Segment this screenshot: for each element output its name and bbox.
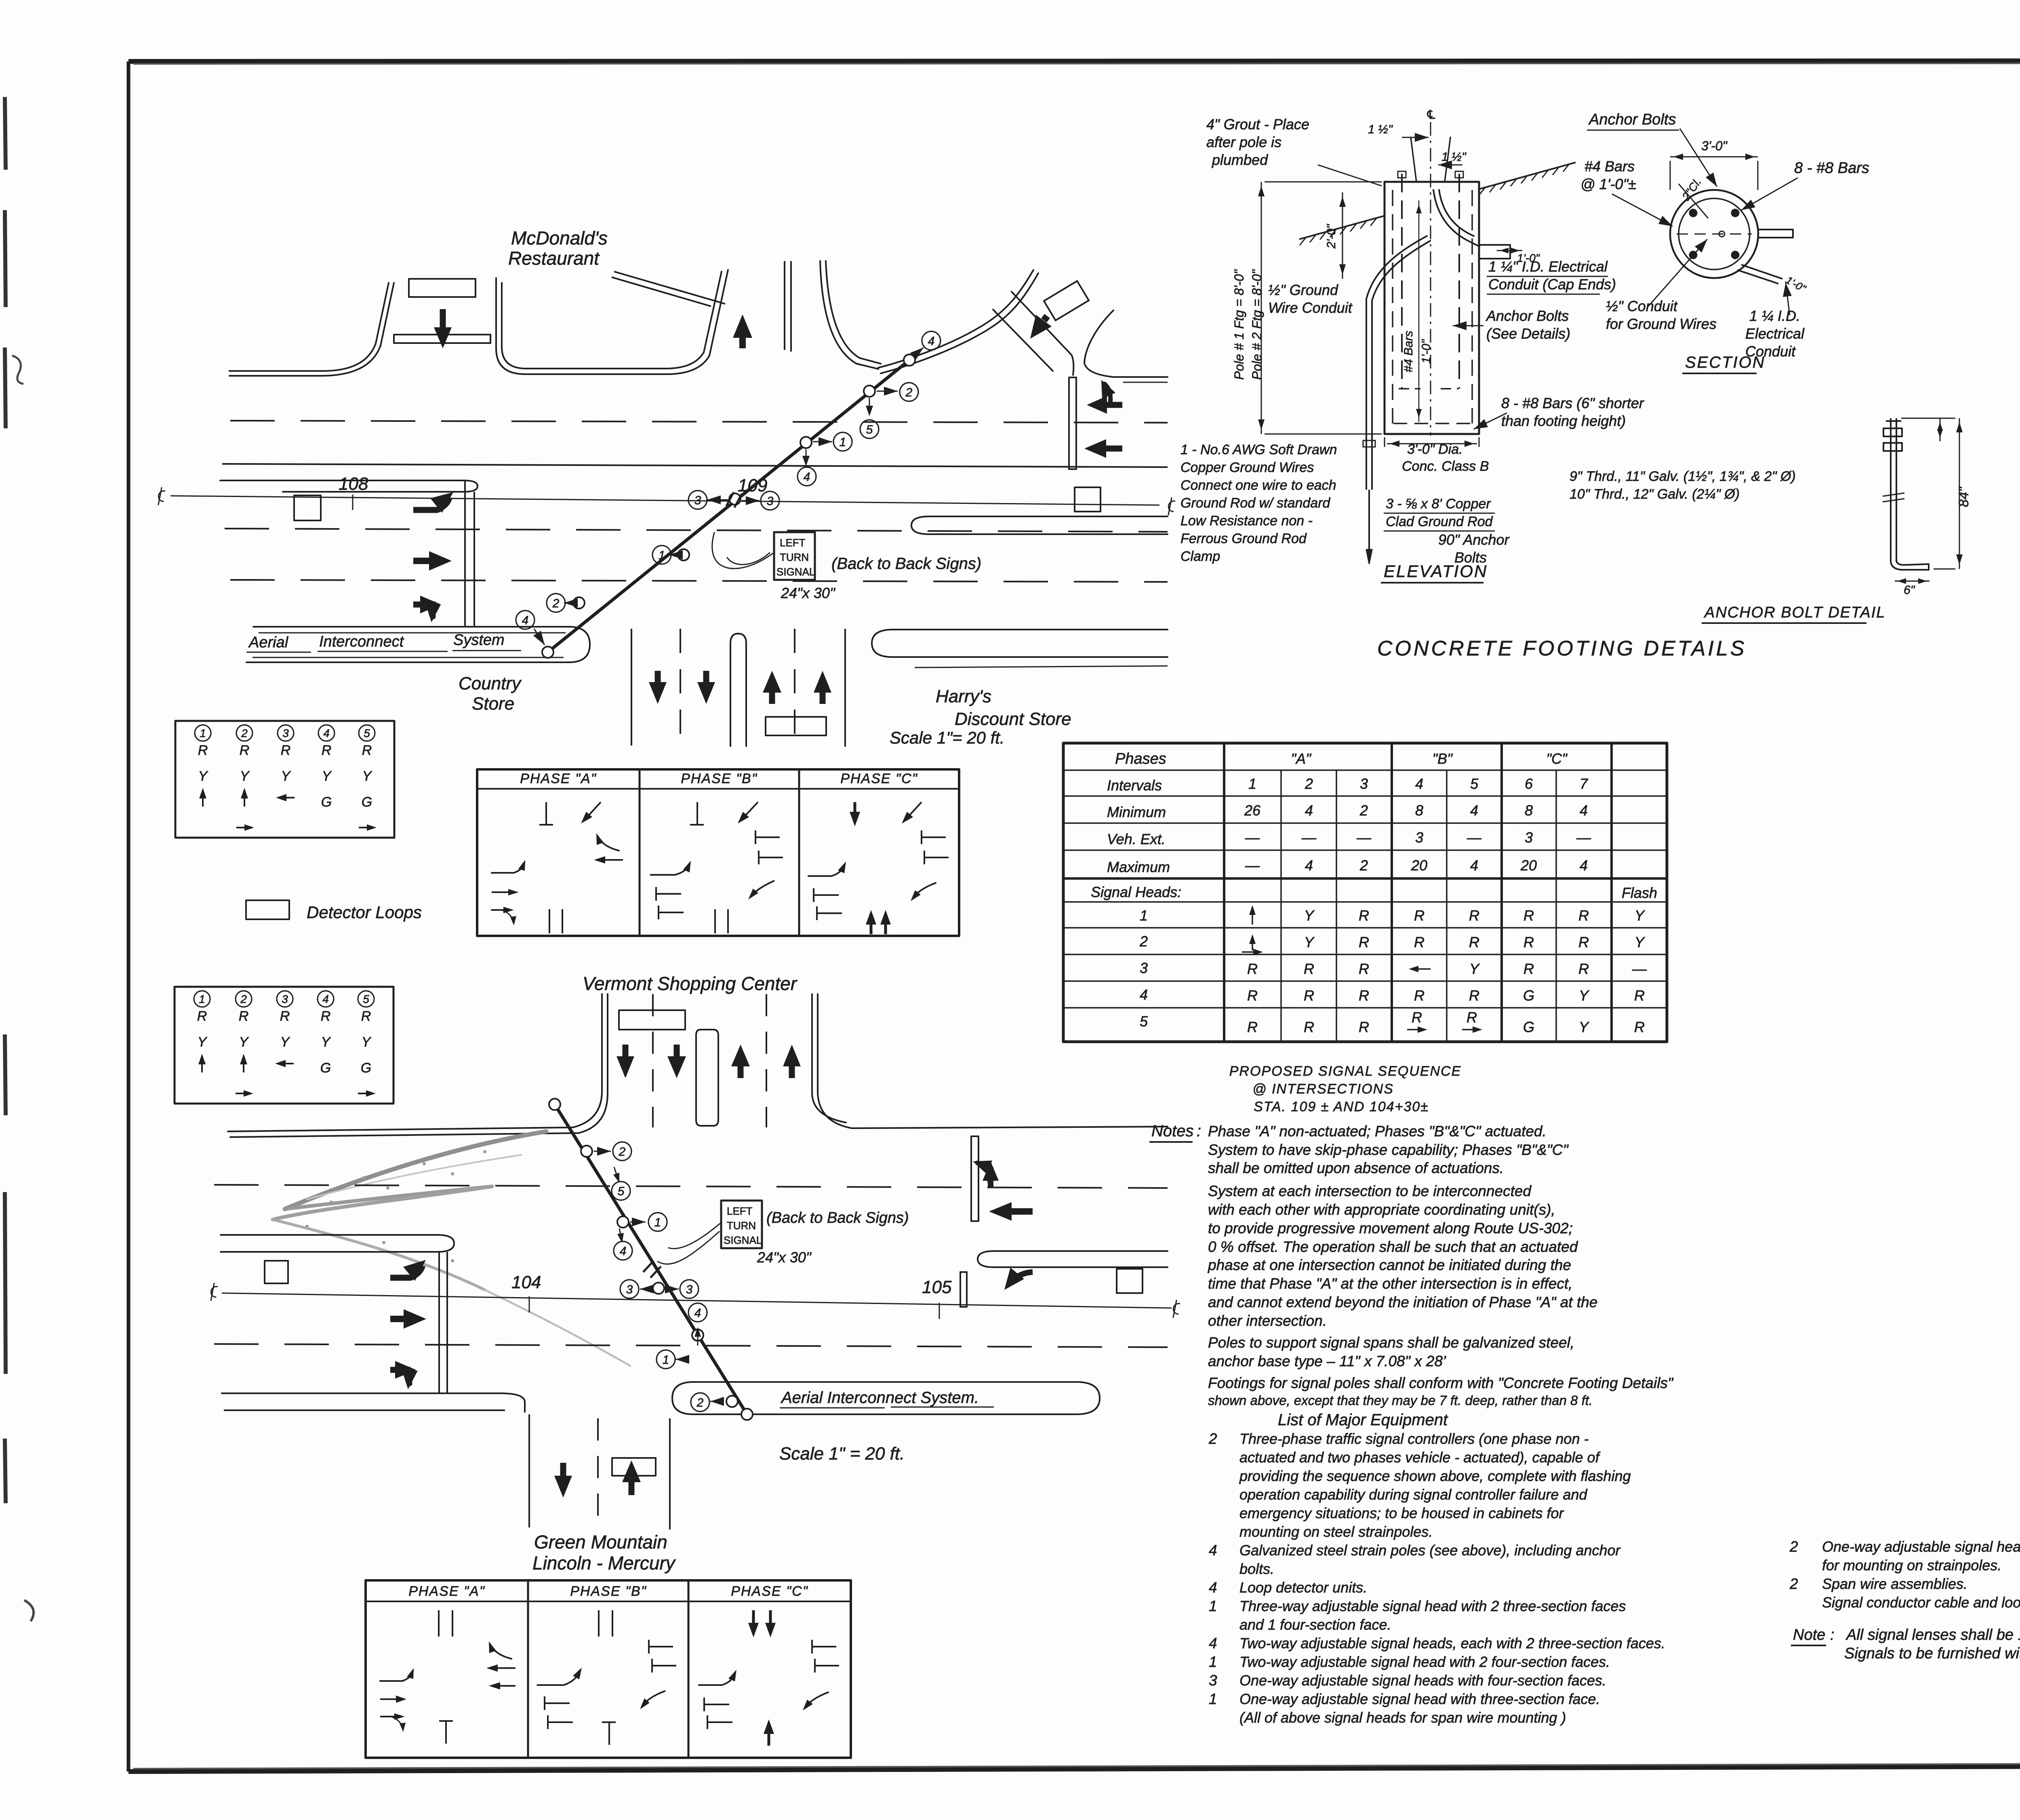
svg-text:Conduit (Cap Ends): Conduit (Cap Ends): [1488, 276, 1616, 293]
NB up arrow: [739, 338, 746, 348]
left turn signal sign 109: [774, 532, 815, 580]
svg-text:8 - #8 Bars: 8 - #8 Bars: [1794, 160, 1869, 177]
rebar cage dashed: [1392, 190, 1393, 423]
pole grout funnel: [1411, 137, 1416, 182]
centerline axis: [1430, 122, 1431, 436]
svg-text:2: 2: [552, 597, 560, 610]
svg-text:R: R: [198, 743, 208, 758]
svg-text:Phases: Phases: [1115, 750, 1166, 767]
svg-text:R: R: [1523, 961, 1534, 977]
east driveway curbs: [784, 261, 785, 350]
svg-text:4" Grout - Place: 4" Grout - Place: [1206, 116, 1309, 133]
svg-text:Notes: Notes: [1151, 1122, 1194, 1140]
svg-text:4: 4: [1305, 802, 1313, 819]
svg-text:R: R: [1469, 907, 1479, 924]
ground rod elevation: [1366, 436, 1367, 490]
svg-text:Anchor Bolts: Anchor Bolts: [1588, 111, 1676, 128]
svg-text:ANCHOR BOLT DETAIL: ANCHOR BOLT DETAIL: [1704, 604, 1885, 621]
McDonalds lot outline: [496, 270, 728, 374]
span nodes/signals 109: [542, 647, 553, 658]
NE left arrow 2: [1106, 446, 1122, 452]
svg-text:operation capability during: operation capability during signal contr…: [1239, 1486, 1587, 1503]
svg-text:for Ground Wires: for Ground Wires: [1606, 316, 1717, 332]
svg-text:1: 1: [1209, 1598, 1217, 1614]
svg-text:Wire Conduit: Wire Conduit: [1268, 299, 1353, 316]
svg-text:R: R: [1304, 987, 1314, 1004]
svg-text:and 1 four-section face.: and 1 four-section face.: [1239, 1616, 1391, 1633]
svg-text:Conc. Class B: Conc. Class B: [1402, 459, 1489, 474]
svg-text:G: G: [320, 1060, 331, 1076]
svg-text:Y: Y: [362, 769, 372, 784]
phase diagram box set 1: [477, 769, 959, 936]
svg-text:R: R: [1359, 987, 1369, 1004]
svg-text:bolts.: bolts.: [1239, 1561, 1274, 1577]
signal heads legend box: [175, 721, 394, 838]
svg-text:#4 Bars: #4 Bars: [1402, 331, 1415, 372]
svg-text:108: 108: [339, 474, 368, 494]
svg-text:R: R: [1469, 987, 1479, 1004]
svg-text:—: —: [1356, 829, 1372, 846]
conduit elbow right: [1433, 190, 1479, 246]
left turn signal sign 104: [721, 1201, 762, 1248]
south leg 104 (Green Mountain): [528, 1414, 530, 1527]
svg-text:4: 4: [522, 614, 529, 627]
svg-text:—: —: [1632, 961, 1647, 977]
NE corner curb sweep: [878, 270, 1033, 368]
svg-text:84": 84": [1956, 486, 1972, 507]
svg-text:3: 3: [694, 494, 701, 507]
svg-text:Y: Y: [198, 1034, 208, 1050]
svg-text:Three-way adjustable signal: Three-way adjustable signal head with 2 …: [1239, 1598, 1626, 1614]
svg-text:Clad Ground Rod: Clad Ground Rod: [1386, 514, 1493, 529]
svg-text:PHASE "C": PHASE "C": [840, 771, 917, 786]
svg-text:Anchor Bolts: Anchor Bolts: [1486, 308, 1569, 324]
svg-text:PHASE "B": PHASE "B": [681, 771, 757, 786]
svg-text:Y: Y: [1304, 907, 1315, 924]
svg-text:plumbed: plumbed: [1212, 152, 1268, 168]
svg-text:G: G: [1523, 1019, 1534, 1035]
svg-text:Ground Rod w/ standard: Ground Rod w/ standard: [1180, 495, 1331, 511]
svg-text:½" Ground: ½" Ground: [1268, 282, 1338, 298]
svg-text:2: 2: [619, 1145, 626, 1159]
svg-text:Y: Y: [1579, 1019, 1590, 1035]
centerline: [170, 496, 1159, 505]
svg-text:1 ½": 1 ½": [1441, 150, 1467, 164]
svg-text:CONCRETE FOOTING DETAILS: CONCRETE FOOTING DETAILS: [1377, 637, 1746, 660]
interior 1-0 dim: [1418, 200, 1420, 422]
svg-text:4: 4: [620, 1245, 627, 1258]
throat island bar: [394, 335, 490, 343]
main road lines 104: [214, 1185, 1168, 1188]
svg-text:Copper Ground Wires: Copper Ground Wires: [1180, 460, 1314, 475]
svg-text:"A": "A": [1291, 750, 1312, 767]
svg-text:LEFT: LEFT: [727, 1205, 753, 1217]
svg-text:Low Resistance non -: Low Resistance non -: [1180, 513, 1313, 529]
span wire 109: [548, 360, 909, 652]
svg-text:PHASE "C": PHASE "C": [731, 1584, 808, 1599]
svg-text:1: 1: [1209, 1691, 1217, 1707]
svg-text:with each other with appropr: with each other with appropriate coordin…: [1208, 1201, 1555, 1218]
svg-text:PHASE "B": PHASE "B": [570, 1584, 647, 1599]
svg-text:G: G: [362, 794, 372, 810]
svg-text:R: R: [1304, 1019, 1314, 1035]
svg-text:Electrical: Electrical: [1745, 325, 1805, 342]
svg-text:and cannot extend beyond th: and cannot extend beyond the initiation …: [1208, 1294, 1597, 1310]
svg-text:R: R: [239, 1009, 249, 1024]
svg-text:other intersection.: other intersection.: [1208, 1312, 1327, 1329]
svg-text:1: 1: [1209, 1654, 1217, 1670]
svg-text:4: 4: [323, 727, 330, 739]
svg-text:R: R: [1578, 907, 1589, 924]
svg-text:@ 1'-0"±: @ 1'-0"±: [1580, 176, 1636, 192]
svg-text:Green Mountain: Green Mountain: [534, 1531, 667, 1552]
svg-text:"B": "B": [1432, 750, 1453, 767]
svg-text:Signal Heads:: Signal Heads:: [1091, 884, 1181, 900]
svg-text:Y: Y: [1635, 907, 1645, 924]
svg-text:4: 4: [1209, 1542, 1217, 1559]
svg-text:Y: Y: [1635, 934, 1645, 950]
svg-text:2: 2: [240, 993, 247, 1005]
svg-text:9" Thrd., 11" Galv. (1½", 1¾",: 9" Thrd., 11" Galv. (1½", 1¾", & 2" Ø): [1570, 469, 1796, 484]
existing cable squiggle: [285, 1131, 546, 1209]
svg-text:Y: Y: [321, 1034, 331, 1050]
svg-text:3: 3: [282, 993, 288, 1005]
svg-text:R: R: [1414, 907, 1425, 924]
svg-text:R: R: [1359, 1019, 1369, 1035]
svg-text:2: 2: [1359, 857, 1368, 874]
grout leader: [1318, 165, 1382, 186]
svg-text:1 ¼" I.D. Electrical: 1 ¼" I.D. Electrical: [1488, 258, 1608, 275]
svg-text:PHASE "A": PHASE "A": [520, 771, 597, 786]
section dim 3-0: [1670, 156, 1758, 158]
svg-text:1: 1: [1140, 907, 1148, 924]
svg-text:4: 4: [1580, 857, 1588, 874]
svg-text:One-way adjustable signal h: One-way adjustable signal head with thre…: [1239, 1691, 1600, 1707]
lane lines lower: [225, 529, 1168, 532]
svg-text:Galvanized steel strain pol: Galvanized steel strain poles (see above…: [1239, 1542, 1621, 1559]
svg-text:(Back to Back Signs): (Back to Back Signs): [831, 555, 981, 573]
svg-text:shown above, except that they: shown above, except that they may be 7 f…: [1208, 1393, 1593, 1408]
svg-text:3: 3: [626, 1283, 633, 1296]
svg-text:Lincoln - Mercury: Lincoln - Mercury: [532, 1552, 676, 1574]
svg-text:105: 105: [922, 1277, 952, 1297]
svg-text:4: 4: [1209, 1635, 1217, 1651]
svg-text:R: R: [1359, 961, 1369, 977]
svg-text:6: 6: [1525, 775, 1533, 792]
south leg road: [631, 629, 632, 746]
svg-text:R: R: [240, 743, 250, 758]
west approach arrows 104: [390, 1266, 423, 1278]
svg-text:R: R: [1469, 934, 1479, 950]
svg-text:—: —: [1576, 829, 1591, 846]
svg-text:Y: Y: [362, 1034, 372, 1050]
svg-text:½" Conduit: ½" Conduit: [1606, 298, 1678, 314]
svg-text:1: 1: [659, 549, 665, 562]
Harrys median lower: [872, 630, 1168, 657]
svg-text:20: 20: [1411, 857, 1427, 874]
svg-text:R: R: [1359, 907, 1369, 924]
NE diagonal driveway (Harrys rear): [1012, 292, 1073, 375]
svg-text:TURN: TURN: [780, 551, 809, 563]
svg-text:2'-0": 2'-0": [1325, 224, 1338, 249]
svg-text:One-way adjustable signal h: One-way adjustable signal heads with fou…: [1239, 1672, 1606, 1689]
svg-text:R: R: [280, 1009, 290, 1024]
svg-text:4: 4: [1305, 857, 1313, 874]
svg-text:2: 2: [696, 1396, 704, 1409]
phase diagram box set 2: [366, 1580, 851, 1758]
svg-text:Scale 1" = 20 ft.: Scale 1" = 20 ft.: [779, 1444, 905, 1464]
svg-text:System to have skip-phase: System to have skip-phase capability; Ph…: [1208, 1142, 1569, 1158]
svg-text:8 - #8 Bars (6" shorter: 8 - #8 Bars (6" shorter: [1501, 395, 1645, 411]
svg-text:Country: Country: [459, 674, 522, 693]
svg-text:Span wire assemblies.: Span wire assemblies.: [1822, 1576, 1967, 1592]
svg-text:shall be omitted upon abse: shall be omitted upon absence of actuati…: [1208, 1160, 1504, 1176]
svg-text:Scale 1"= 20 ft.: Scale 1"= 20 ft.: [890, 728, 1005, 747]
interval table: [1063, 743, 1667, 1042]
svg-text:R: R: [1412, 1009, 1422, 1026]
NE drive black arrow: [1044, 316, 1047, 320]
svg-text:@ INTERSECTIONS: @ INTERSECTIONS: [1252, 1081, 1394, 1097]
svg-text:providing the sequence show: providing the sequence shown above, comp…: [1239, 1468, 1631, 1484]
median west: [220, 480, 478, 492]
main road lane lines top: [230, 421, 1168, 423]
ground lines + hatching: [1299, 216, 1385, 239]
svg-text:Pole # 1 Ftg = 8'-0": Pole # 1 Ftg = 8'-0": [1232, 269, 1246, 380]
svg-text:1 - No.6 AWG Soft Drawn: 1 - No.6 AWG Soft Drawn: [1180, 442, 1337, 457]
svg-text:Discount Store: Discount Store: [955, 709, 1071, 729]
svg-text:3: 3: [1415, 829, 1423, 846]
svg-text:2: 2: [1359, 802, 1368, 819]
dim 2-0 left: [1342, 192, 1343, 279]
svg-text:R: R: [1523, 907, 1534, 924]
svg-text:SIGNAL: SIGNAL: [724, 1234, 762, 1246]
lane lines lower 104: [214, 1344, 1168, 1347]
svg-text:R: R: [1359, 934, 1369, 950]
svg-text:R: R: [1634, 987, 1645, 1004]
svg-text:PHASE "A": PHASE "A": [408, 1584, 485, 1599]
svg-text:4: 4: [804, 470, 810, 484]
svg-text:R: R: [1414, 987, 1425, 1004]
svg-text:2: 2: [241, 727, 248, 739]
svg-text:3: 3: [1209, 1672, 1217, 1689]
svg-text:R: R: [322, 743, 332, 758]
svg-text:Vermont Shopping Center: Vermont Shopping Center: [583, 973, 797, 994]
svg-text:Y: Y: [198, 769, 208, 784]
svg-text:8: 8: [1525, 802, 1533, 819]
svg-text::: :: [1830, 1626, 1835, 1643]
svg-text:R: R: [1414, 934, 1425, 950]
svg-text:3: 3: [686, 1283, 693, 1296]
svg-text:10" Thrd., 12" Galv. (2¼" Ø): 10" Thrd., 12" Galv. (2¼" Ø): [1570, 487, 1740, 502]
svg-text:—: —: [1467, 829, 1482, 846]
svg-text:2: 2: [1305, 775, 1313, 792]
svg-text:R: R: [281, 743, 291, 758]
sheet border frame: [128, 61, 2020, 61]
svg-text:mounting on steel strainpol: mounting on steel strainpoles.: [1239, 1523, 1433, 1540]
svg-text:0 % offset. The operation: 0 % offset. The operation shall be such …: [1208, 1239, 1578, 1255]
bottom curb west 104: [222, 1393, 525, 1412]
detector sq east: [1075, 487, 1100, 512]
svg-text:TURN: TURN: [727, 1220, 756, 1232]
svg-text:Interconnect: Interconnect: [319, 633, 404, 650]
svg-text:One-way adjustable signal h: One-way adjustable signal heads with thr…: [1822, 1538, 2020, 1555]
entrance down arrow: [440, 309, 446, 327]
svg-text:(All of above signal heads: (All of above signal heads for span wire…: [1239, 1709, 1566, 1726]
svg-text:Harry's: Harry's: [936, 687, 991, 706]
svg-text:All signal lenses shall be: All signal lenses shall be 12- inch size…: [1845, 1626, 2020, 1643]
svg-text:System at each intersection: System at each intersection to be interc…: [1208, 1183, 1532, 1199]
svg-text:Maximum: Maximum: [1107, 859, 1170, 875]
south leg arrows: [655, 671, 661, 682]
north leg curbs: [228, 994, 602, 1131]
svg-text:3: 3: [1360, 775, 1368, 792]
svg-text:Loop detector units.: Loop detector units.: [1239, 1579, 1367, 1596]
svg-text:1: 1: [840, 436, 846, 449]
svg-text:Pole # 2 Ftg = 8'-0": Pole # 2 Ftg = 8'-0": [1250, 269, 1264, 380]
svg-text:Clamp: Clamp: [1180, 549, 1220, 564]
svg-text:SECTION: SECTION: [1685, 354, 1765, 371]
svg-text:Flash: Flash: [1622, 885, 1657, 901]
NE fork arrow (left + up): [1107, 402, 1122, 408]
east side islands/arrows 104: [971, 1136, 978, 1221]
footing elevation outline: [1385, 182, 1479, 434]
svg-text:R: R: [1467, 1009, 1477, 1026]
svg-text:Veh. Ext.: Veh. Ext.: [1107, 831, 1166, 847]
svg-text:Y: Y: [239, 1034, 249, 1050]
svg-text:5: 5: [866, 423, 873, 436]
McDonalds frontage curbs: [229, 283, 389, 371]
svg-text:2: 2: [905, 386, 913, 399]
north leg detector: [619, 1010, 685, 1030]
svg-text:4: 4: [928, 335, 935, 348]
svg-text:4: 4: [322, 993, 329, 1005]
svg-text:R: R: [1634, 1019, 1645, 1035]
svg-text:Restaurant: Restaurant: [508, 248, 600, 269]
svg-text:R: R: [197, 1009, 207, 1024]
svg-text:2: 2: [1139, 933, 1148, 950]
svg-text:G: G: [361, 1060, 371, 1076]
svg-text:ELEVATION: ELEVATION: [1384, 562, 1488, 581]
svg-text:4: 4: [1470, 802, 1478, 819]
signal heads legend box: [175, 987, 393, 1104]
svg-text:Footings for signal poles: Footings for signal poles shall conform …: [1208, 1375, 1674, 1391]
svg-text:℄: ℄: [1427, 108, 1435, 122]
svg-text:Y: Y: [1304, 934, 1315, 950]
svg-text:4: 4: [1415, 775, 1423, 792]
svg-text:3: 3: [282, 727, 289, 739]
svg-text:26: 26: [1244, 802, 1261, 819]
svg-text:Phase "A" non-actuated; Phas: Phase "A" non-actuated; Phases "B"&"C" a…: [1208, 1123, 1547, 1140]
svg-text:1: 1: [199, 993, 205, 1005]
6in dim: [1895, 581, 1930, 582]
svg-text:Y: Y: [1579, 987, 1590, 1004]
svg-text:4: 4: [1209, 1579, 1217, 1596]
svg-text:for mounting on strainpoles: for mounting on strainpoles.: [1822, 1557, 2001, 1574]
detector loop rect: [409, 279, 476, 297]
svg-text:Y: Y: [240, 769, 250, 784]
svg-text:(Back to Back Signs): (Back to Back Signs): [766, 1209, 909, 1226]
svg-text:3: 3: [1140, 960, 1148, 976]
svg-text:6": 6": [1904, 583, 1915, 597]
svg-text:phase at one intersection c: phase at one intersection cannot be init…: [1208, 1257, 1571, 1273]
svg-text:Detector Loops: Detector Loops: [307, 903, 422, 922]
footing section: [1670, 190, 1758, 278]
west approach arrows: [413, 498, 449, 510]
svg-text:R: R: [1578, 961, 1589, 977]
svg-text:time that Phase "A" at the: time that Phase "A" at the other interse…: [1208, 1275, 1572, 1292]
svg-text:Y: Y: [322, 769, 332, 784]
svg-text:Two-way adjustable signal h: Two-way adjustable signal heads, each wi…: [1239, 1635, 1665, 1651]
svg-text:R: R: [1247, 987, 1258, 1004]
detector loops legend: [246, 900, 289, 919]
svg-text:G: G: [321, 794, 332, 810]
svg-text:Poles to support signal sp: Poles to support signal spans shall be g…: [1208, 1334, 1574, 1351]
svg-text:Intervals: Intervals: [1107, 777, 1162, 794]
svg-text:Y: Y: [1469, 961, 1480, 977]
svg-text:R: R: [361, 1009, 371, 1024]
svg-text:Signals to be furnished wit: Signals to be furnished with standard & …: [1844, 1645, 2020, 1662]
svg-text:1'-0": 1'-0": [1517, 252, 1540, 264]
svg-text:System: System: [453, 632, 505, 649]
svg-text:1: 1: [654, 1216, 661, 1229]
svg-text:4: 4: [1140, 986, 1148, 1003]
svg-text:Signal conductor cable and: Signal conductor cable and loop wire as …: [1822, 1594, 2020, 1611]
svg-text:SIGNAL: SIGNAL: [776, 566, 815, 578]
svg-text:#4 Bars: #4 Bars: [1584, 158, 1635, 175]
svg-text:24"x 30": 24"x 30": [757, 1249, 812, 1266]
svg-text:1 ¼ I.D.: 1 ¼ I.D.: [1749, 308, 1800, 324]
detector squares 104: [265, 1261, 288, 1283]
svg-text:20: 20: [1520, 857, 1537, 874]
detector sq west: [294, 495, 321, 520]
svg-text:Two-way adjustable signal h: Two-way adjustable signal head with 2 fo…: [1239, 1654, 1610, 1670]
svg-text:actuated and two phases ve: actuated and two phases vehicle - actuat…: [1239, 1449, 1601, 1466]
lot diagonal double line: [614, 272, 725, 304]
NE east curb down from upper right: [1084, 310, 1168, 377]
svg-text:(See Details): (See Details): [1486, 325, 1570, 342]
island near Harrys entry: [1069, 377, 1076, 469]
svg-text:Y: Y: [280, 1034, 290, 1050]
svg-text:5: 5: [364, 727, 370, 739]
svg-text:1: 1: [663, 1353, 669, 1367]
svg-text:R: R: [1247, 961, 1258, 977]
svg-text:5: 5: [1470, 775, 1479, 792]
svg-text:McDonald's: McDonald's: [511, 227, 608, 249]
svg-text:anchor base type – 11" x 7: anchor base type – 11" x 7.08" x 28’: [1208, 1353, 1446, 1369]
svg-text:3: 3: [767, 495, 774, 508]
anchor bolts inside: [1401, 174, 1403, 389]
west leg driveway verticals: [464, 480, 466, 627]
svg-text:R: R: [1247, 1019, 1258, 1035]
svg-text:STA. 109 ± AND 104+30±: STA. 109 ± AND 104+30±: [1254, 1099, 1429, 1114]
svg-text:emergency situations; to be: emergency situations; to be housed in ca…: [1239, 1505, 1564, 1521]
svg-text:Ferrous Ground Rod: Ferrous Ground Rod: [1180, 531, 1307, 546]
svg-text:than footing height): than footing height): [1501, 413, 1626, 429]
median segments 104: [221, 1235, 454, 1252]
svg-text:—: —: [1245, 829, 1260, 846]
svg-text:7: 7: [1580, 775, 1589, 792]
svg-text:Y: Y: [281, 769, 291, 784]
svg-text:1: 1: [1248, 775, 1256, 792]
median east: [911, 516, 1168, 534]
svg-text:1: 1: [200, 727, 206, 739]
svg-text:4: 4: [1580, 802, 1588, 819]
north leg island: [696, 1030, 718, 1126]
svg-text:R: R: [362, 743, 372, 758]
svg-text:90" Anchor: 90" Anchor: [1438, 531, 1510, 548]
svg-text:Connect one wire to each: Connect one wire to each: [1180, 478, 1336, 493]
rotated pad on NE drive: [1044, 281, 1089, 320]
